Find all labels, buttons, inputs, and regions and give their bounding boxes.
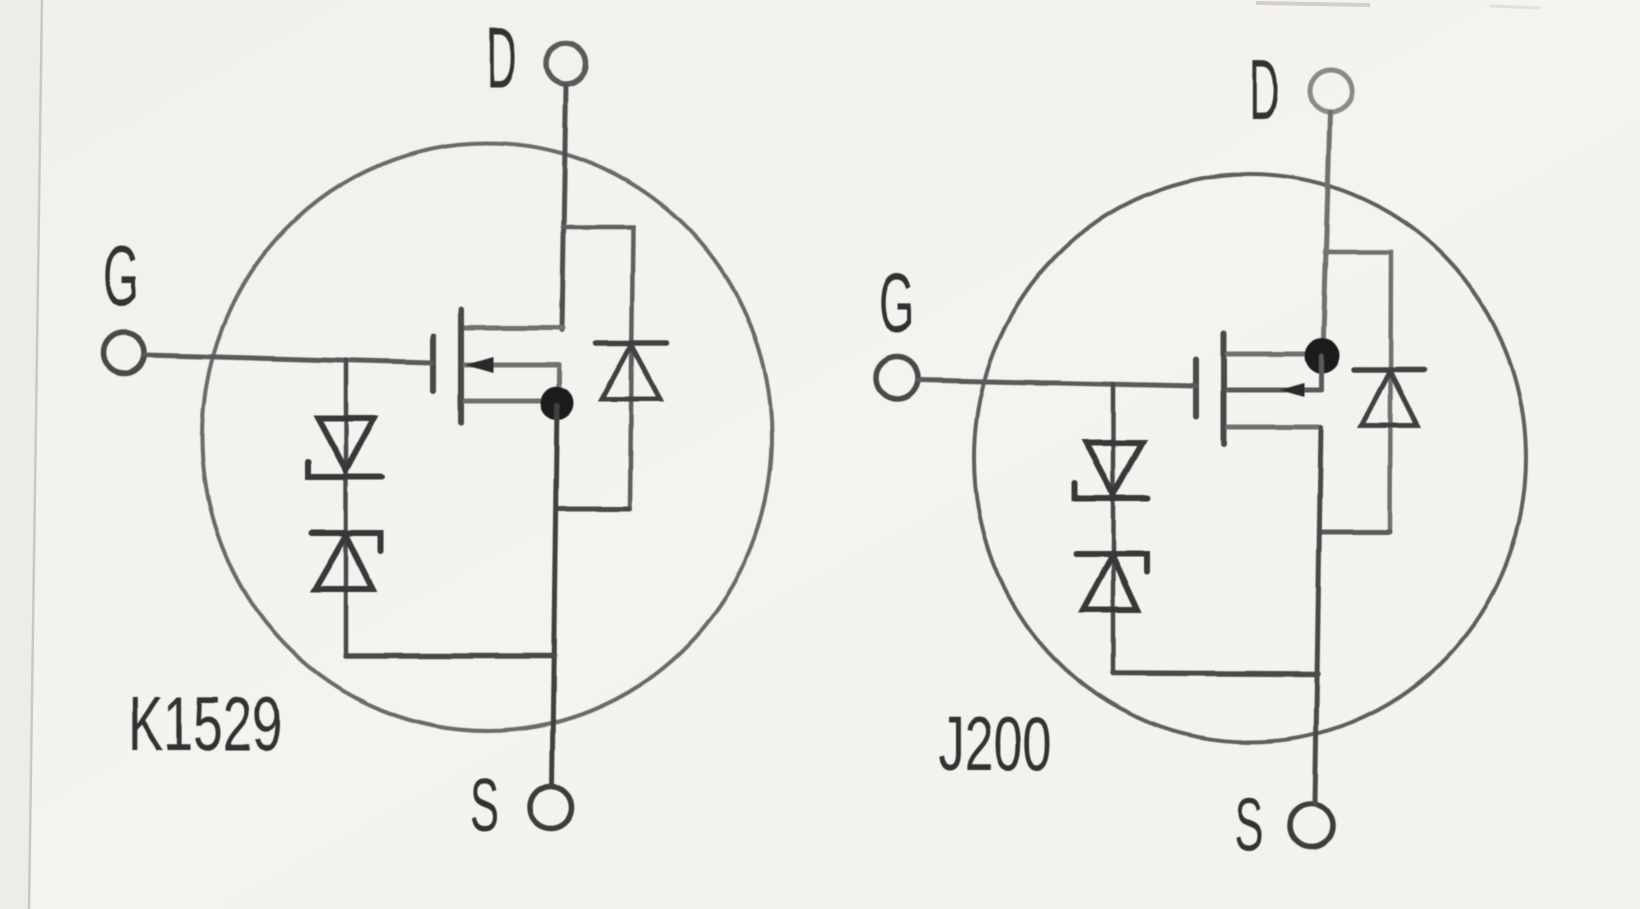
svg-text:S: S [470, 763, 499, 847]
svg-text:G: G [103, 229, 139, 324]
svg-text:J200: J200 [938, 702, 1052, 787]
svg-text:D: D [1249, 43, 1279, 138]
svg-text:G: G [879, 256, 915, 351]
svg-text:S: S [1234, 782, 1263, 866]
svg-text:K1529: K1529 [128, 682, 282, 767]
svg-text:D: D [487, 11, 517, 106]
